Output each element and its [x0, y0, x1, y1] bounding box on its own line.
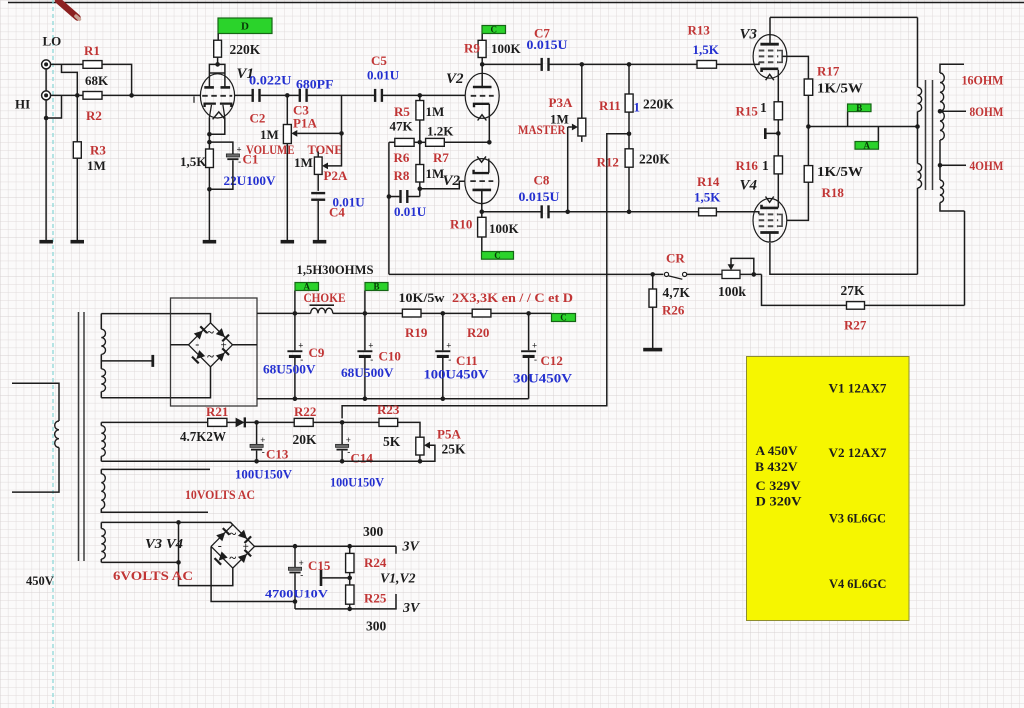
node bias probe R15 [776, 131, 781, 136]
wire V1 plate loop [209, 64, 225, 87]
green box C bus [552, 313, 576, 323]
svg-text:A 450V: A 450V [756, 444, 799, 458]
label P1A [293, 116, 317, 131]
label 1M R8 [426, 166, 445, 181]
label CHOKE [304, 291, 346, 305]
capacitor C7 [541, 58, 550, 71]
wire R11R12 tap to bias [607, 134, 629, 275]
wire secondary to feedback [964, 211, 966, 305]
capacitor C3 [299, 89, 308, 102]
svg-text:8OHM: 8OHM [970, 104, 1004, 119]
label R12 [597, 155, 619, 170]
node bias return c14 [340, 459, 345, 464]
svg-text:C: C [491, 25, 498, 35]
wire bias winding to R21 [101, 421, 207, 423]
svg-text:4,7K: 4,7K [663, 285, 691, 300]
svg-text:100U150V: 100U150V [235, 468, 292, 482]
svg-text:+: + [260, 435, 265, 445]
svg-text:V3 V4: V3 V4 [145, 537, 183, 552]
wire tone vertical [328, 95, 342, 165]
svg-text:1: 1 [762, 158, 769, 173]
label 25K [442, 442, 467, 457]
label 1M P3A [550, 112, 569, 127]
svg-text:68U500V: 68U500V [263, 362, 316, 377]
ground R3 [71, 240, 85, 244]
ground V1 cathode [203, 240, 217, 244]
svg-text:4OHM: 4OHM [970, 158, 1004, 173]
wire C13 bottom [256, 451, 258, 462]
svg-text:R1: R1 [84, 43, 100, 58]
svg-text:R21: R21 [206, 404, 228, 419]
svg-text:20K: 20K [293, 432, 318, 447]
wire 220K to plate node [217, 57, 219, 64]
svg-text:1M: 1M [426, 166, 445, 181]
label R24 [364, 555, 387, 570]
wire bias rail down [342, 274, 607, 418]
node jack ground line [44, 116, 49, 121]
svg-text:220K: 220K [643, 97, 674, 112]
svg-text:P5A: P5A [437, 427, 461, 442]
svg-text:3V: 3V [402, 540, 421, 555]
label 16OHM [962, 73, 1004, 88]
resistor R27 [847, 302, 865, 310]
wire jack column to ground [45, 100, 47, 240]
wire R13 to V3 [717, 62, 760, 64]
label V3 [740, 27, 758, 43]
svg-text:R3: R3 [90, 143, 106, 158]
label 0.015U C7 [527, 37, 569, 52]
resistor R8 [416, 165, 424, 183]
node heater tap bottom [176, 560, 181, 565]
label 30U450V [513, 371, 573, 386]
svg-text:30U450V: 30U450V [513, 371, 573, 386]
wire R18 to V4 screen [787, 182, 809, 220]
label R3 [90, 143, 106, 158]
svg-text:10VOLTS AC: 10VOLTS AC [185, 488, 255, 502]
svg-text:P2A: P2A [324, 168, 348, 183]
label 0.01U C4 [333, 195, 366, 210]
wire R12 bottom [628, 167, 630, 212]
label R8 [394, 168, 410, 183]
wire HI to R2 [51, 94, 83, 96]
wire R8 bottom [419, 182, 421, 197]
legend C 329V [756, 479, 802, 493]
wire V2l plate down [481, 190, 483, 217]
label V2 upper [446, 71, 464, 87]
wire heater stub [179, 522, 233, 585]
svg-text:6VOLTS AC: 6VOLTS AC [113, 569, 193, 583]
capacitor C14 [336, 435, 351, 457]
wire R15 to R161 [777, 120, 779, 156]
svg-text:1M: 1M [260, 127, 279, 142]
wire R11-R12 [628, 112, 630, 149]
svg-text:R20: R20 [467, 325, 489, 340]
V1 grid tick [193, 96, 195, 102]
resistor R11 [625, 94, 633, 112]
label R10 [450, 217, 472, 232]
wire P2A to C4 [317, 174, 319, 191]
svg-text:+: + [237, 145, 242, 155]
wire R17 to node B [807, 95, 809, 165]
label 220K R12 [639, 152, 670, 167]
label R7 [433, 150, 449, 165]
svg-text:R19: R19 [405, 325, 428, 340]
node bus c9 [293, 396, 298, 401]
wire P3A vertical [581, 64, 583, 118]
wire P1A top [286, 95, 288, 124]
wire R10 bottom [481, 237, 483, 252]
PT primary [12, 383, 59, 492]
svg-text:25K: 25K [442, 442, 467, 457]
svg-text:100K: 100K [489, 221, 520, 236]
svg-text:+: + [299, 558, 304, 568]
legend V4 6L6GC [829, 577, 887, 591]
wire feedback to R27 [762, 274, 847, 305]
svg-text:C10: C10 [379, 349, 401, 364]
probe bar R15 [765, 128, 778, 139]
wire 4ohm [940, 164, 966, 166]
wire C14 top lead [341, 422, 343, 444]
wire 6V top lead [101, 522, 233, 524]
label 220K R11 [643, 97, 674, 112]
label 450V [26, 574, 54, 588]
label R1 [84, 43, 100, 58]
legend V1 12AX7 [829, 382, 888, 396]
PT 6V winding [101, 522, 105, 562]
wire R20 to C12 [491, 312, 552, 314]
svg-text:HI: HI [15, 97, 30, 112]
svg-text:220K: 220K [230, 42, 261, 57]
capacitor C13 [250, 435, 265, 457]
V1 plate bars [204, 86, 230, 89]
svg-text:300: 300 [366, 619, 387, 634]
label 0.015U C8 [519, 189, 561, 204]
wire C3 to C5 [308, 94, 375, 96]
wire R5 top [419, 95, 421, 100]
svg-text:LO: LO [43, 34, 62, 49]
wire R2 to V1 grid [102, 94, 201, 96]
svg-text:68U500V: 68U500V [341, 365, 394, 380]
wire choke to R19 [333, 312, 403, 314]
label 1M R5 [426, 104, 445, 119]
tube V1 [200, 74, 234, 118]
svg-text:-: - [448, 355, 451, 365]
label R6 [394, 150, 410, 165]
bridge HV connections [171, 314, 258, 398]
node C11 top [441, 311, 446, 316]
svg-text:0.022U: 0.022U [249, 73, 292, 88]
label 4.7K2W [180, 429, 226, 444]
label R23 [377, 402, 400, 417]
wire diode to R22 [245, 421, 294, 423]
node cathode b [207, 140, 212, 145]
PT 10V winding [101, 469, 210, 512]
svg-text:V4: V4 [740, 178, 758, 194]
wire V2 plate to C8 [482, 211, 541, 213]
node V2 plate out [480, 209, 485, 214]
label V1 [237, 66, 255, 82]
svg-text:C8: C8 [534, 173, 550, 188]
label MASTER [518, 123, 566, 137]
svg-text:100U150V: 100U150V [330, 476, 384, 490]
svg-text:R5: R5 [394, 104, 410, 119]
wire C7 to R13 [550, 63, 698, 65]
top border line [8, 2, 1024, 4]
wire C12 bottom [528, 358, 530, 399]
capacitor C15 [288, 558, 303, 580]
resistor R2 [83, 92, 102, 100]
svg-text:R9: R9 [464, 41, 480, 56]
resistor R7 [426, 138, 445, 146]
svg-text:-: - [370, 355, 373, 365]
switch CR [664, 272, 686, 279]
resistor R20 [472, 309, 491, 317]
tube V4 [753, 197, 787, 243]
wire C5 to V2 [383, 94, 466, 96]
svg-text:1: 1 [760, 100, 767, 115]
wire C15 top lead [294, 546, 296, 567]
wire R6-R7 row [389, 141, 489, 143]
potentiometer P1A [283, 125, 291, 144]
svg-text:V1,V2: V1,V2 [380, 572, 416, 587]
svg-text:2X3,3K en / / C et D: 2X3,3K en / / C et D [452, 291, 573, 305]
cyan dashed margin line [52, 0, 54, 708]
resistor R26 [649, 289, 657, 307]
label V4 [740, 178, 758, 194]
label 68U500V b [341, 365, 394, 380]
svg-text:680PF: 680PF [296, 77, 334, 92]
svg-text:3V: 3V [402, 601, 421, 616]
wire tap to A box [877, 127, 879, 142]
svg-text:~: ~ [207, 349, 214, 364]
green box D [218, 18, 272, 34]
svg-text:CR: CR [666, 251, 685, 266]
svg-text:C15: C15 [308, 558, 331, 573]
svg-text:1M: 1M [87, 158, 106, 173]
legend V2 12AX7 [829, 446, 888, 460]
resistor R161 [774, 156, 782, 174]
label C8 [534, 173, 550, 188]
label 100U150V b [330, 476, 384, 490]
wire C11 bottom [442, 358, 444, 399]
wire V4 plate down [770, 243, 918, 274]
svg-text:R22: R22 [294, 404, 316, 419]
resistor R18 [804, 166, 813, 183]
svg-text:R7: R7 [433, 150, 449, 165]
wire LO to R1 [51, 63, 83, 65]
label 20K [293, 432, 318, 447]
label C3 [293, 103, 309, 118]
bridge rectifier HV [189, 323, 233, 367]
label 68U500V a [263, 362, 316, 377]
svg-text:100K: 100K [491, 41, 522, 56]
label V3 V4 [145, 537, 183, 552]
svg-text:22U100V: 22U100V [224, 173, 277, 188]
resistor R12 [625, 149, 633, 167]
potentiometer P3A [578, 118, 586, 142]
potentiometer P5A [416, 437, 424, 455]
wire D box to 220K [217, 34, 220, 41]
wire R11 top [628, 64, 630, 94]
svg-text:+: + [221, 339, 227, 351]
svg-text:68K: 68K [85, 73, 109, 88]
potentiometer 100k [722, 270, 740, 278]
resistor R1 [83, 61, 102, 69]
wire R6 left down [388, 142, 390, 274]
capacitor C10 [357, 341, 373, 365]
node R24 top [347, 544, 352, 549]
diode bias [236, 417, 245, 427]
label R9 [464, 41, 480, 56]
svg-text:0.015U: 0.015U [519, 189, 561, 204]
label 27K [841, 283, 866, 298]
capacitor C8 [541, 205, 550, 218]
node R5 bottom junction [418, 140, 423, 145]
wire V3 screen to R17 [782, 56, 808, 79]
svg-text:27K: 27K [841, 283, 866, 298]
wire C9 top [294, 313, 296, 350]
wire B+ rail to OT [808, 126, 917, 128]
wire C11 top lead [442, 313, 444, 350]
label 300 top [363, 524, 384, 539]
OT core [926, 80, 933, 190]
wire filter ground bus [257, 398, 529, 400]
label 47K [390, 119, 414, 134]
label 220K [230, 42, 261, 57]
svg-text:C2: C2 [250, 111, 266, 126]
capacitor C9 [287, 341, 303, 365]
svg-text:P3A: P3A [549, 95, 573, 110]
svg-text:1.2K: 1.2K [427, 124, 454, 139]
svg-text:C 329V: C 329V [756, 479, 802, 493]
jack LO [42, 60, 51, 69]
node C node [480, 62, 485, 67]
svg-text:V1 12AX7: V1 12AX7 [829, 382, 888, 396]
svg-text:V3: V3 [740, 27, 758, 43]
svg-text:R15: R15 [736, 104, 759, 119]
node choke B [363, 311, 368, 316]
wire V2l cathode up [488, 159, 490, 173]
label 6VOLTS AC [113, 569, 193, 583]
wire CR to 100k [687, 273, 722, 275]
wire C10 top [364, 313, 366, 350]
wire R1 right down to HI line [102, 64, 132, 95]
100k wiper [728, 258, 754, 274]
label C13 [266, 447, 289, 462]
wire C10 bottom [364, 358, 366, 399]
svg-text:B 432V: B 432V [755, 460, 798, 474]
PT HV winding [101, 314, 105, 398]
node cathode ground loop [207, 187, 212, 192]
svg-text:+: + [243, 541, 249, 553]
label R22 [294, 404, 316, 419]
capacitor C2 [252, 89, 261, 102]
label 0.01U grid [394, 204, 427, 219]
svg-text:1M: 1M [294, 155, 313, 170]
node OT center tap [915, 124, 920, 129]
svg-text:MASTER: MASTER [518, 123, 566, 137]
label R27 [844, 318, 867, 333]
wire cap left lead [389, 196, 400, 198]
wire V2 lower grid [420, 181, 465, 189]
label 0.022U [249, 73, 292, 88]
svg-text:V2 12AX7: V2 12AX7 [829, 446, 888, 460]
svg-text:C5: C5 [371, 53, 387, 68]
svg-text:R26: R26 [662, 303, 685, 318]
V1 grid dashes [202, 95, 232, 97]
svg-text:R8: R8 [394, 168, 410, 183]
wire V3 cathode down [777, 70, 779, 102]
node 4 ohm tap [938, 163, 943, 168]
green box A choke [295, 282, 319, 292]
wire R25 bottom lead [349, 604, 351, 609]
P1A wiper [291, 130, 341, 137]
wire R8 top [419, 142, 421, 164]
wire R22 to R23 [313, 421, 379, 423]
label 100K R10 [489, 221, 520, 236]
wire C12 top lead [528, 313, 530, 350]
node P3A wiper bottom [565, 210, 570, 215]
svg-text:+: + [532, 341, 537, 351]
label 3V bottom [402, 601, 421, 616]
svg-text:R10: R10 [450, 217, 472, 232]
svg-text:5K: 5K [383, 434, 401, 449]
capacitor C5 [374, 89, 383, 102]
wire R27 to OT [865, 304, 965, 306]
svg-text:300: 300 [363, 524, 384, 539]
node P5A bottom [418, 459, 423, 464]
label 4OHM [970, 158, 1004, 173]
node feedback [752, 272, 757, 277]
resistor R19 [402, 309, 421, 317]
P2A top stub [317, 152, 319, 158]
wire C node to C7 [482, 63, 541, 65]
label 1M R3 [87, 158, 106, 173]
green box B ot [848, 103, 872, 113]
svg-text:+: + [368, 341, 373, 351]
ground P2A [313, 240, 327, 244]
label R14 [697, 174, 720, 189]
resistor R23 [379, 418, 398, 426]
node bias return c13 [254, 459, 259, 464]
label LO [43, 34, 62, 49]
tube V2 upper [465, 71, 499, 121]
tube V3 [753, 35, 787, 81]
wire R161 to V4 cathode [777, 174, 779, 208]
wire V2u cathode down [488, 104, 490, 142]
green box C lower [482, 250, 514, 260]
svg-text:16OHM: 16OHM [962, 73, 1004, 88]
resistor R5 [416, 101, 424, 121]
label 3V top [402, 540, 421, 555]
wire bias cross line [389, 273, 663, 275]
svg-text:-: - [195, 337, 199, 351]
label 680PF [296, 77, 334, 92]
label V2 lower [443, 173, 461, 189]
svg-text:C9: C9 [309, 345, 325, 360]
label 100U150V a [235, 468, 292, 482]
legend A 450V [756, 444, 799, 458]
label 100K R9 [491, 41, 522, 56]
wire R5 to R6R7 [419, 120, 421, 142]
resistor R14 [699, 208, 717, 216]
legend D 320V [756, 495, 803, 509]
wire R26 to ground [652, 307, 654, 348]
svg-text:10K/5w: 10K/5w [399, 291, 445, 305]
svg-text:-: - [262, 447, 265, 457]
wire bias return line [101, 460, 420, 462]
node R12 bottom [627, 210, 632, 215]
